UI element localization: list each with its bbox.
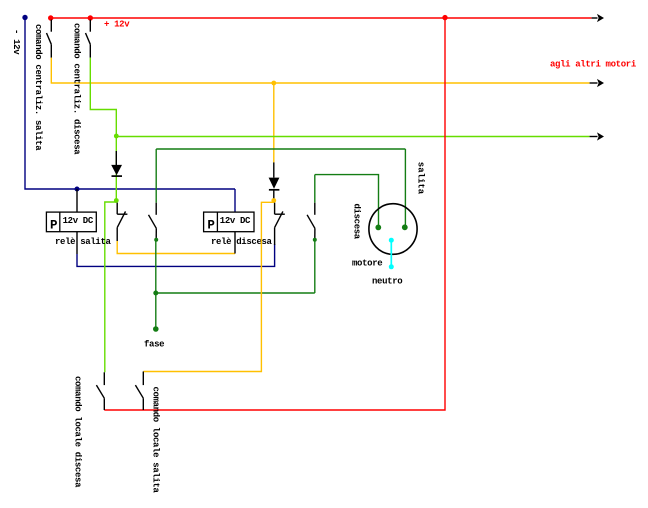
svg-text:comando centraliz. discesa: comando centraliz. discesa <box>71 23 81 155</box>
wire yellow coil link NC salita to relay discesa coil <box>117 241 235 254</box>
node neutro top terminal <box>389 238 394 243</box>
svg-text:neutro: neutro <box>372 277 402 287</box>
svg-text:salita: salita <box>416 162 426 195</box>
node green junction below diode <box>114 198 119 203</box>
svg-text:P: P <box>207 219 215 233</box>
wire salita command yellow rail <box>51 82 589 84</box>
svg-text:motore: motore <box>352 259 382 269</box>
diode D1 (relay salita interlock) <box>111 151 122 176</box>
node green junction at rail <box>114 134 119 139</box>
relay discesa P box <box>204 212 254 253</box>
svg-text:+ 12v: + 12v <box>104 20 130 30</box>
node motor salita terminal <box>402 224 408 230</box>
node fase terminal <box>153 326 159 332</box>
svg-text:fase: fase <box>144 340 164 350</box>
wire yellow from centraliz. salita switch <box>50 58 52 84</box>
wire yellow arrow lead <box>590 82 598 84</box>
wire dark green salita rail <box>156 148 405 150</box>
diode D2 (relay discesa interlock) <box>269 162 280 199</box>
wire yellow branch to local salita switch <box>143 202 273 371</box>
switch comando centralizzato discesa <box>86 20 91 58</box>
wire neutro cyan <box>390 240 392 267</box>
wire -12v navy rail <box>25 18 235 190</box>
svg-text:discesa: discesa <box>352 204 362 240</box>
switch comando locale discesa <box>96 372 104 410</box>
node yellow junction at rail <box>271 81 276 86</box>
wire green arrow lead <box>590 136 598 138</box>
node red junction at x=445 <box>442 15 447 20</box>
node fase junction <box>153 291 158 296</box>
node red junction at x=51 <box>48 15 53 20</box>
svg-text:comando locale discesa: comando locale discesa <box>73 376 83 488</box>
wire navy drop to relay discesa coil <box>234 189 236 213</box>
svg-text:P: P <box>50 219 58 233</box>
wire red arrow lead <box>592 17 598 19</box>
svg-text:12v DC: 12v DC <box>63 216 94 226</box>
relay discesa NC contact <box>275 203 285 245</box>
node motor discesa terminal <box>375 225 381 231</box>
arrow to other motors (green rail) <box>597 132 604 140</box>
wire green from centraliz. discesa switch <box>90 58 116 201</box>
node yellow junction below diode <box>271 198 276 203</box>
node navy junction relay salita coil <box>75 187 80 192</box>
arrow to other motors (yellow rail) <box>597 79 604 87</box>
node neutro bottom terminal <box>389 264 394 269</box>
wire navy bottom link coil salita to NC discesa contact <box>77 244 275 266</box>
wire +12v red rail <box>51 17 592 19</box>
svg-text:agli altri motori: agli altri motori <box>550 60 637 70</box>
node red junction at x=90 <box>88 15 93 20</box>
wire fase vertical <box>155 240 157 329</box>
relay discesa NO contact <box>314 175 316 203</box>
wire yellow drop to diode D2 <box>273 83 275 162</box>
svg-text:comando locale salita: comando locale salita <box>151 387 161 494</box>
svg-text:12v DC: 12v DC <box>220 216 251 226</box>
arrow to other motors (red rail) <box>597 14 604 22</box>
wire green branch to local discesa switch <box>105 202 117 372</box>
node contact output <box>313 238 317 242</box>
svg-text:comando centraliz. salita: comando centraliz. salita <box>33 24 43 151</box>
relay salita NO contact <box>155 149 157 203</box>
wire dark green to motor salita terminal <box>404 149 406 227</box>
relay salita P box <box>46 189 96 254</box>
svg-text:relè discesa: relè discesa <box>211 237 273 247</box>
wire fase link to NO discesa contact <box>156 292 315 294</box>
wire dark green NO discesa to fase link <box>314 240 316 293</box>
wire red vertical to local commands <box>104 18 445 410</box>
svg-text:relè salita: relè salita <box>55 237 112 247</box>
relay salita NC contact <box>117 203 127 241</box>
motor M1 circle <box>369 204 417 255</box>
switch comando locale salita <box>135 372 143 411</box>
wire discesa command green rail <box>116 136 589 138</box>
switch comando centralizzato salita <box>47 20 52 58</box>
node contact output <box>154 238 158 242</box>
wire dark green to motor discesa terminal <box>315 175 379 227</box>
node -12v terminal <box>22 15 27 20</box>
svg-text:- 12v: - 12v <box>11 29 21 55</box>
